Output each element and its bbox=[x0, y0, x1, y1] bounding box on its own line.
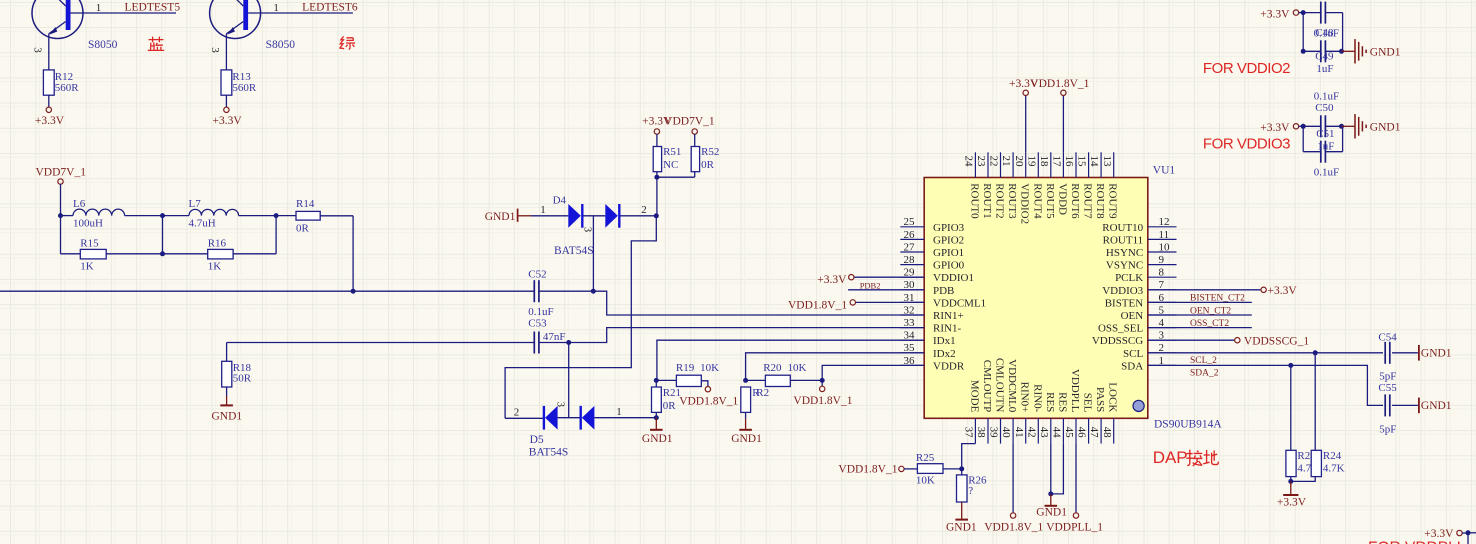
svg-text:24: 24 bbox=[963, 156, 975, 168]
svg-text:DS90UB914A: DS90UB914A bbox=[1154, 418, 1222, 430]
svg-text:+3.3V: +3.3V bbox=[35, 115, 65, 127]
wire bbox=[531, 215, 568, 217]
svg-text:MODE: MODE bbox=[968, 380, 980, 413]
junction bbox=[1301, 124, 1306, 129]
svg-text:VDDIO2: VDDIO2 bbox=[1019, 183, 1031, 224]
resistor R16 bbox=[208, 249, 233, 259]
svg-text:0.1uF: 0.1uF bbox=[1314, 167, 1339, 179]
svg-text:37: 37 bbox=[963, 427, 975, 439]
pin 40 stub bbox=[1012, 418, 1014, 443]
VDDPLL_1 terminal bbox=[1073, 513, 1078, 518]
resistor R18 bbox=[222, 361, 232, 387]
wire bbox=[1290, 365, 1292, 450]
svg-text:46: 46 bbox=[1076, 427, 1088, 439]
wire bbox=[746, 379, 766, 381]
GND1 bar bbox=[1418, 345, 1420, 361]
svg-text:1uF: 1uF bbox=[1316, 63, 1333, 75]
inductor L6 bbox=[73, 209, 125, 215]
svg-text:GND1: GND1 bbox=[1370, 121, 1401, 133]
+3.3V power bar bbox=[1290, 481, 1292, 495]
wire pin1 SDA bbox=[1148, 364, 1291, 366]
+3.3V terminal bbox=[1457, 530, 1462, 535]
wire bbox=[848, 289, 924, 291]
svg-text:RIN0+: RIN0+ bbox=[1019, 382, 1031, 413]
svg-text:VDDSSCG: VDDSSCG bbox=[1092, 335, 1143, 347]
svg-text:21: 21 bbox=[1000, 156, 1012, 167]
resistor R13 bbox=[221, 70, 232, 95]
svg-text:5pF: 5pF bbox=[1379, 371, 1396, 383]
svg-text:LEDTEST6: LEDTEST6 bbox=[302, 2, 358, 14]
pin 14 stub bbox=[1100, 152, 1102, 177]
wire bbox=[1326, 50, 1343, 52]
junction bbox=[654, 213, 659, 218]
svg-text:SCL: SCL bbox=[1123, 348, 1143, 360]
svg-text:GND1: GND1 bbox=[485, 211, 516, 223]
junction bbox=[1466, 530, 1471, 535]
pin 36 stub bbox=[900, 364, 924, 366]
pin 21 stub bbox=[1012, 152, 1014, 177]
wire bbox=[505, 417, 543, 419]
wire bbox=[1025, 95, 1027, 152]
wire bbox=[569, 328, 925, 343]
svg-text:ROUT1: ROUT1 bbox=[981, 183, 993, 218]
svg-text:ROUT5: ROUT5 bbox=[1044, 183, 1056, 219]
svg-text:GND1: GND1 bbox=[1370, 46, 1401, 58]
svg-text:10: 10 bbox=[1159, 241, 1171, 253]
diode D5b bbox=[580, 406, 582, 430]
pin 34 stub bbox=[900, 339, 924, 341]
VDD7V_1 terminal bbox=[58, 179, 63, 184]
svg-text:31: 31 bbox=[904, 292, 915, 304]
pin 45 stub bbox=[1075, 418, 1077, 443]
pin 43 stub bbox=[1050, 418, 1052, 443]
VDD1.8V_1 terminal bbox=[850, 300, 855, 305]
svg-text:S8050: S8050 bbox=[88, 39, 118, 51]
svg-text:GPIO2: GPIO2 bbox=[933, 234, 964, 246]
wire bbox=[745, 412, 747, 419]
svg-text:42: 42 bbox=[1025, 427, 1037, 438]
pin 2 stub bbox=[1148, 352, 1177, 354]
svg-text:10K: 10K bbox=[700, 362, 719, 374]
svg-text:VDDPLL: VDDPLL bbox=[1069, 369, 1081, 413]
wire bbox=[962, 444, 976, 469]
wire bbox=[584, 215, 606, 217]
pin 4 stub bbox=[1148, 327, 1177, 329]
capacitor C55 bbox=[1384, 394, 1386, 416]
svg-text:5pF: 5pF bbox=[1379, 423, 1396, 435]
pin 11 stub bbox=[1148, 238, 1177, 240]
svg-text:D4: D4 bbox=[553, 194, 567, 206]
wire bbox=[592, 216, 594, 291]
junction node bbox=[160, 213, 165, 218]
resistor R52 bbox=[691, 147, 699, 172]
svg-text:3: 3 bbox=[32, 47, 44, 53]
wire bbox=[1468, 532, 1476, 534]
svg-text:43: 43 bbox=[1038, 427, 1050, 439]
svg-text:+3.3V: +3.3V bbox=[1260, 122, 1290, 134]
svg-text:LOCK: LOCK bbox=[1107, 382, 1119, 412]
junction bbox=[1301, 10, 1306, 15]
svg-text:R20: R20 bbox=[763, 362, 782, 374]
wire bbox=[106, 253, 162, 255]
svg-text:ROUT7: ROUT7 bbox=[1082, 183, 1094, 219]
wire bbox=[1302, 126, 1304, 151]
svg-text:GND1: GND1 bbox=[731, 433, 762, 445]
svg-text:22: 22 bbox=[988, 156, 1000, 167]
svg-text:OEN_CT2: OEN_CT2 bbox=[1190, 306, 1231, 316]
svg-text:36: 36 bbox=[904, 355, 916, 367]
svg-text:C53: C53 bbox=[528, 317, 547, 329]
wire bbox=[1326, 12, 1343, 14]
wire pin45 bbox=[1075, 444, 1077, 513]
wire bbox=[1299, 12, 1304, 14]
GND1 bar bbox=[1418, 398, 1420, 414]
wire bbox=[0, 290, 534, 292]
wire bbox=[239, 215, 277, 217]
pin 47 stub bbox=[1100, 418, 1102, 443]
svg-text:PDB2: PDB2 bbox=[860, 281, 881, 291]
wire bbox=[163, 215, 190, 217]
svg-text:VDD1.8V_1: VDD1.8V_1 bbox=[1030, 78, 1089, 90]
capacitor C53 bbox=[533, 332, 535, 354]
svg-text:R16: R16 bbox=[208, 238, 227, 250]
svg-text:ROUT10: ROUT10 bbox=[1102, 222, 1143, 234]
wire bbox=[233, 253, 276, 255]
pin 12 stub bbox=[1148, 226, 1177, 228]
pin 9 stub bbox=[1148, 264, 1177, 266]
wire bbox=[943, 468, 962, 470]
red text jie-di (grounding) bbox=[1186, 450, 1218, 466]
wire bbox=[225, 95, 227, 107]
svg-text:GND1: GND1 bbox=[1421, 400, 1452, 412]
junction bbox=[58, 213, 63, 218]
svg-text:ROUT11: ROUT11 bbox=[1103, 234, 1144, 246]
wire bbox=[746, 353, 925, 381]
svg-text:35: 35 bbox=[904, 342, 916, 354]
pin 35 stub bbox=[900, 352, 924, 354]
svg-text:VU1: VU1 bbox=[1153, 165, 1176, 177]
pin 6 stub bbox=[1148, 301, 1177, 303]
svg-text:0.1uF: 0.1uF bbox=[528, 306, 553, 318]
svg-text:17: 17 bbox=[1051, 156, 1063, 168]
wire bbox=[1462, 532, 1468, 534]
pin 23 stub bbox=[987, 152, 989, 177]
resistor R25 bbox=[917, 464, 943, 474]
svg-text:LEDTEST5: LEDTEST5 bbox=[125, 2, 181, 14]
wire bbox=[854, 276, 924, 278]
wire bbox=[539, 342, 569, 344]
svg-text:ROUT6: ROUT6 bbox=[1069, 183, 1081, 219]
VDD7V_1 terminal bbox=[692, 129, 697, 134]
svg-text:3: 3 bbox=[209, 47, 221, 53]
svg-text:GND1: GND1 bbox=[212, 411, 243, 423]
svg-text:C54: C54 bbox=[1378, 331, 1397, 343]
svg-text:VDDD: VDDD bbox=[1056, 183, 1068, 215]
wire bbox=[320, 215, 353, 217]
svg-text:BAT54S: BAT54S bbox=[529, 446, 569, 458]
ground GND1 bbox=[655, 418, 657, 430]
svg-text:30: 30 bbox=[904, 279, 916, 291]
wire bbox=[656, 172, 658, 178]
svg-text:L7: L7 bbox=[189, 198, 202, 210]
wire bbox=[60, 216, 62, 254]
pin 44 stub bbox=[1062, 418, 1064, 443]
junction bbox=[1048, 491, 1053, 496]
svg-text:VDDIO3: VDDIO3 bbox=[1102, 285, 1143, 297]
svg-text:CMLOUTP: CMLOUTP bbox=[981, 360, 993, 413]
wire bbox=[961, 469, 963, 475]
svg-text:50R: 50R bbox=[233, 372, 252, 384]
svg-text:+3.3V: +3.3V bbox=[1260, 8, 1290, 20]
wire bbox=[60, 184, 62, 216]
red text lan (blue) bbox=[148, 37, 164, 51]
svg-text:GPIO3: GPIO3 bbox=[933, 222, 965, 234]
wire pin40 bbox=[1012, 444, 1014, 513]
svg-text:SCL_2: SCL_2 bbox=[1190, 356, 1217, 366]
pin 22 stub bbox=[1000, 152, 1002, 177]
wire bbox=[1062, 95, 1064, 152]
svg-text:15: 15 bbox=[1076, 156, 1088, 168]
pin 15 stub bbox=[1088, 152, 1090, 177]
svg-text:29: 29 bbox=[904, 267, 916, 279]
svg-text:VDDCML0: VDDCML0 bbox=[1006, 359, 1018, 413]
resistor R23 bbox=[1286, 450, 1296, 476]
pin 16 stub bbox=[1075, 152, 1077, 177]
svg-text:R19: R19 bbox=[676, 362, 695, 374]
svg-text:FOR VDDIO3: FOR VDDIO3 bbox=[1203, 136, 1290, 153]
svg-text:14: 14 bbox=[1088, 156, 1100, 168]
svg-text:+3.3V: +3.3V bbox=[1277, 496, 1307, 508]
svg-text:33: 33 bbox=[904, 317, 916, 329]
pin 13 stub bbox=[1113, 152, 1115, 177]
pin 27 stub bbox=[900, 251, 924, 253]
svg-text:OEN: OEN bbox=[1121, 310, 1144, 322]
svg-text:VDD1.8V_1: VDD1.8V_1 bbox=[788, 300, 847, 312]
svg-text:1K: 1K bbox=[80, 260, 94, 272]
diode D4b bbox=[605, 204, 618, 228]
VDD1.8V_1 terminal bbox=[1010, 513, 1015, 518]
svg-text:+3.3V: +3.3V bbox=[817, 274, 847, 286]
svg-text:1: 1 bbox=[273, 2, 279, 14]
wire bbox=[1291, 477, 1315, 482]
svg-text:R2: R2 bbox=[756, 387, 769, 399]
wire bbox=[656, 379, 676, 381]
svg-text:VDD1.8V_1: VDD1.8V_1 bbox=[679, 395, 738, 407]
wire bbox=[822, 365, 924, 380]
junction bbox=[566, 340, 571, 345]
wire bbox=[701, 381, 708, 387]
VDD1.8V_1 terminal bbox=[1061, 90, 1066, 95]
ground GND1 bbox=[226, 396, 228, 405]
svg-text:40: 40 bbox=[1000, 427, 1012, 439]
svg-text:1K: 1K bbox=[208, 260, 222, 272]
svg-text:GPIO1: GPIO1 bbox=[933, 247, 964, 259]
capacitor C54 bbox=[1384, 342, 1386, 364]
svg-text:1uF: 1uF bbox=[1317, 140, 1334, 152]
wire bbox=[1392, 404, 1418, 406]
svg-text:VDDSSCG_1: VDDSSCG_1 bbox=[1244, 335, 1309, 347]
junction bbox=[1339, 124, 1344, 129]
wire bbox=[1303, 12, 1320, 14]
svg-text:C49: C49 bbox=[1315, 51, 1334, 63]
red text lv (green) bbox=[340, 36, 355, 49]
svg-text:9: 9 bbox=[1159, 254, 1165, 266]
svg-text:PASS: PASS bbox=[1094, 387, 1106, 412]
pin 17 stub bbox=[1062, 152, 1064, 177]
wire bbox=[162, 216, 164, 254]
wire pin5 bbox=[1148, 314, 1252, 316]
svg-text:VDDR: VDDR bbox=[933, 360, 965, 372]
svg-text:47: 47 bbox=[1088, 427, 1100, 439]
svg-text:VDD7V_1: VDD7V_1 bbox=[36, 166, 87, 178]
svg-text:RIN1+: RIN1+ bbox=[933, 310, 964, 322]
svg-text:IDx2: IDx2 bbox=[933, 348, 956, 360]
svg-text:0R: 0R bbox=[663, 400, 677, 412]
svg-text:0R: 0R bbox=[701, 159, 715, 171]
svg-text:BISTEN_CT2: BISTEN_CT2 bbox=[1190, 294, 1245, 304]
svg-text:NC: NC bbox=[663, 159, 678, 171]
svg-text:SDA: SDA bbox=[1121, 360, 1143, 372]
pin 1 stub bbox=[1148, 364, 1177, 366]
svg-text:3: 3 bbox=[582, 227, 593, 232]
pin 18 stub bbox=[1050, 152, 1052, 177]
wire bbox=[276, 215, 296, 217]
wire bbox=[821, 380, 823, 386]
svg-text:16: 16 bbox=[1063, 156, 1075, 168]
svg-text:RIN0-: RIN0- bbox=[1031, 384, 1043, 412]
junction bbox=[160, 251, 165, 256]
svg-text:PDB: PDB bbox=[933, 285, 954, 297]
junction bbox=[1301, 49, 1306, 54]
resistor R20 bbox=[765, 375, 790, 386]
VDD1.8V_1 terminal bbox=[820, 386, 825, 391]
svg-text:10K: 10K bbox=[788, 362, 807, 374]
svg-text:VSYNC: VSYNC bbox=[1106, 260, 1143, 272]
svg-text:10K: 10K bbox=[916, 475, 935, 487]
diode D4a bbox=[568, 204, 581, 228]
wire bbox=[593, 291, 924, 315]
svg-text:34: 34 bbox=[904, 330, 916, 342]
svg-text:ROUT9: ROUT9 bbox=[1107, 183, 1119, 219]
wire bbox=[1326, 151, 1343, 153]
svg-text:RES: RES bbox=[1044, 392, 1056, 412]
svg-text:L6: L6 bbox=[73, 198, 86, 210]
svg-text:39: 39 bbox=[988, 427, 1000, 439]
pin 30 stub bbox=[900, 289, 924, 291]
svg-text:R52: R52 bbox=[701, 146, 719, 158]
svg-text:VDDPLL_1: VDDPLL_1 bbox=[1046, 521, 1103, 533]
pin 33 stub bbox=[900, 327, 924, 329]
svg-text:VDDIO1: VDDIO1 bbox=[933, 272, 974, 284]
wire bbox=[227, 342, 535, 344]
capacitor C49 bbox=[1320, 40, 1322, 62]
wire bbox=[1299, 125, 1304, 127]
junction bbox=[654, 175, 659, 180]
svg-text:SDA_2: SDA_2 bbox=[1190, 368, 1219, 378]
svg-text:IDx1: IDx1 bbox=[933, 335, 956, 347]
svg-text:PCLK: PCLK bbox=[1115, 272, 1143, 284]
svg-text:CMLOUTN: CMLOUTN bbox=[994, 358, 1006, 412]
pin 46 stub bbox=[1088, 418, 1090, 443]
svg-text:GND1: GND1 bbox=[642, 433, 673, 445]
svg-text:ROUT2: ROUT2 bbox=[994, 183, 1006, 218]
wire bbox=[904, 468, 917, 470]
svg-text:GND1: GND1 bbox=[1421, 348, 1452, 360]
svg-text:GND1: GND1 bbox=[1036, 507, 1067, 519]
transistor Q6 S8050 bbox=[210, 0, 353, 70]
pin 31 stub bbox=[900, 301, 924, 303]
pin 7 stub bbox=[1148, 289, 1177, 291]
junction node bbox=[274, 213, 279, 218]
svg-text:560R: 560R bbox=[55, 82, 80, 94]
+3.3V terminal bbox=[849, 275, 854, 280]
svg-text:R14: R14 bbox=[296, 198, 315, 210]
svg-text:HSYNC: HSYNC bbox=[1106, 247, 1143, 259]
wire pin4 bbox=[1148, 327, 1252, 329]
diode D5a bbox=[543, 406, 545, 430]
svg-text:C50: C50 bbox=[1315, 102, 1334, 114]
pin 3 stub bbox=[1148, 339, 1177, 341]
capacitor C48 bbox=[1320, 2, 1322, 24]
svg-text:R51: R51 bbox=[663, 146, 681, 158]
svg-text:VDDCML1: VDDCML1 bbox=[933, 297, 986, 309]
svg-text:C48: C48 bbox=[1315, 27, 1334, 39]
svg-text:+3.3V: +3.3V bbox=[1268, 285, 1298, 297]
pin 19 stub bbox=[1037, 152, 1039, 177]
VDD1.8V_1 terminal bbox=[705, 387, 710, 392]
pin 32 stub bbox=[900, 314, 924, 316]
svg-text:1: 1 bbox=[540, 204, 546, 216]
svg-text:ROUT4: ROUT4 bbox=[1031, 183, 1043, 219]
svg-text:?: ? bbox=[968, 485, 973, 497]
transistor Q5 S8050 bbox=[32, 0, 176, 70]
svg-text:BISTEN: BISTEN bbox=[1105, 297, 1144, 309]
junction bbox=[959, 466, 964, 471]
svg-text:C51: C51 bbox=[1316, 128, 1334, 140]
wire bbox=[656, 177, 658, 216]
junction bbox=[1339, 49, 1344, 54]
resistor R22 bbox=[741, 387, 751, 412]
pin 48 stub bbox=[1113, 418, 1115, 443]
svg-text:1: 1 bbox=[96, 2, 102, 14]
svg-text:27: 27 bbox=[904, 241, 916, 253]
svg-text:GPIO0: GPIO0 bbox=[933, 260, 965, 272]
junction bbox=[743, 378, 748, 383]
svg-text:ROUT3: ROUT3 bbox=[1006, 183, 1018, 219]
resistor R19 bbox=[676, 375, 701, 386]
svg-text:DAP: DAP bbox=[1153, 448, 1188, 467]
svg-text:GND1: GND1 bbox=[946, 521, 977, 533]
svg-text:S8050: S8050 bbox=[266, 39, 296, 51]
resistor R21 bbox=[652, 387, 662, 412]
wire bbox=[594, 417, 656, 419]
ground GND1 bbox=[1050, 494, 1052, 506]
wire bbox=[1291, 365, 1383, 405]
wire bbox=[656, 134, 658, 147]
pin 29 stub bbox=[900, 276, 924, 278]
svg-text:VDD1.8V_1: VDD1.8V_1 bbox=[838, 464, 897, 476]
+3.3V terminal bbox=[1023, 90, 1028, 95]
svg-text:12: 12 bbox=[1159, 216, 1170, 228]
svg-text:48: 48 bbox=[1101, 427, 1113, 439]
junction bbox=[1288, 479, 1293, 484]
svg-text:RIN1-: RIN1- bbox=[933, 323, 961, 335]
svg-text:560R: 560R bbox=[232, 82, 257, 94]
wire bbox=[505, 216, 656, 418]
capacitor C50 bbox=[1320, 115, 1322, 137]
ground GND1 bbox=[745, 419, 747, 430]
wire bbox=[790, 379, 822, 381]
